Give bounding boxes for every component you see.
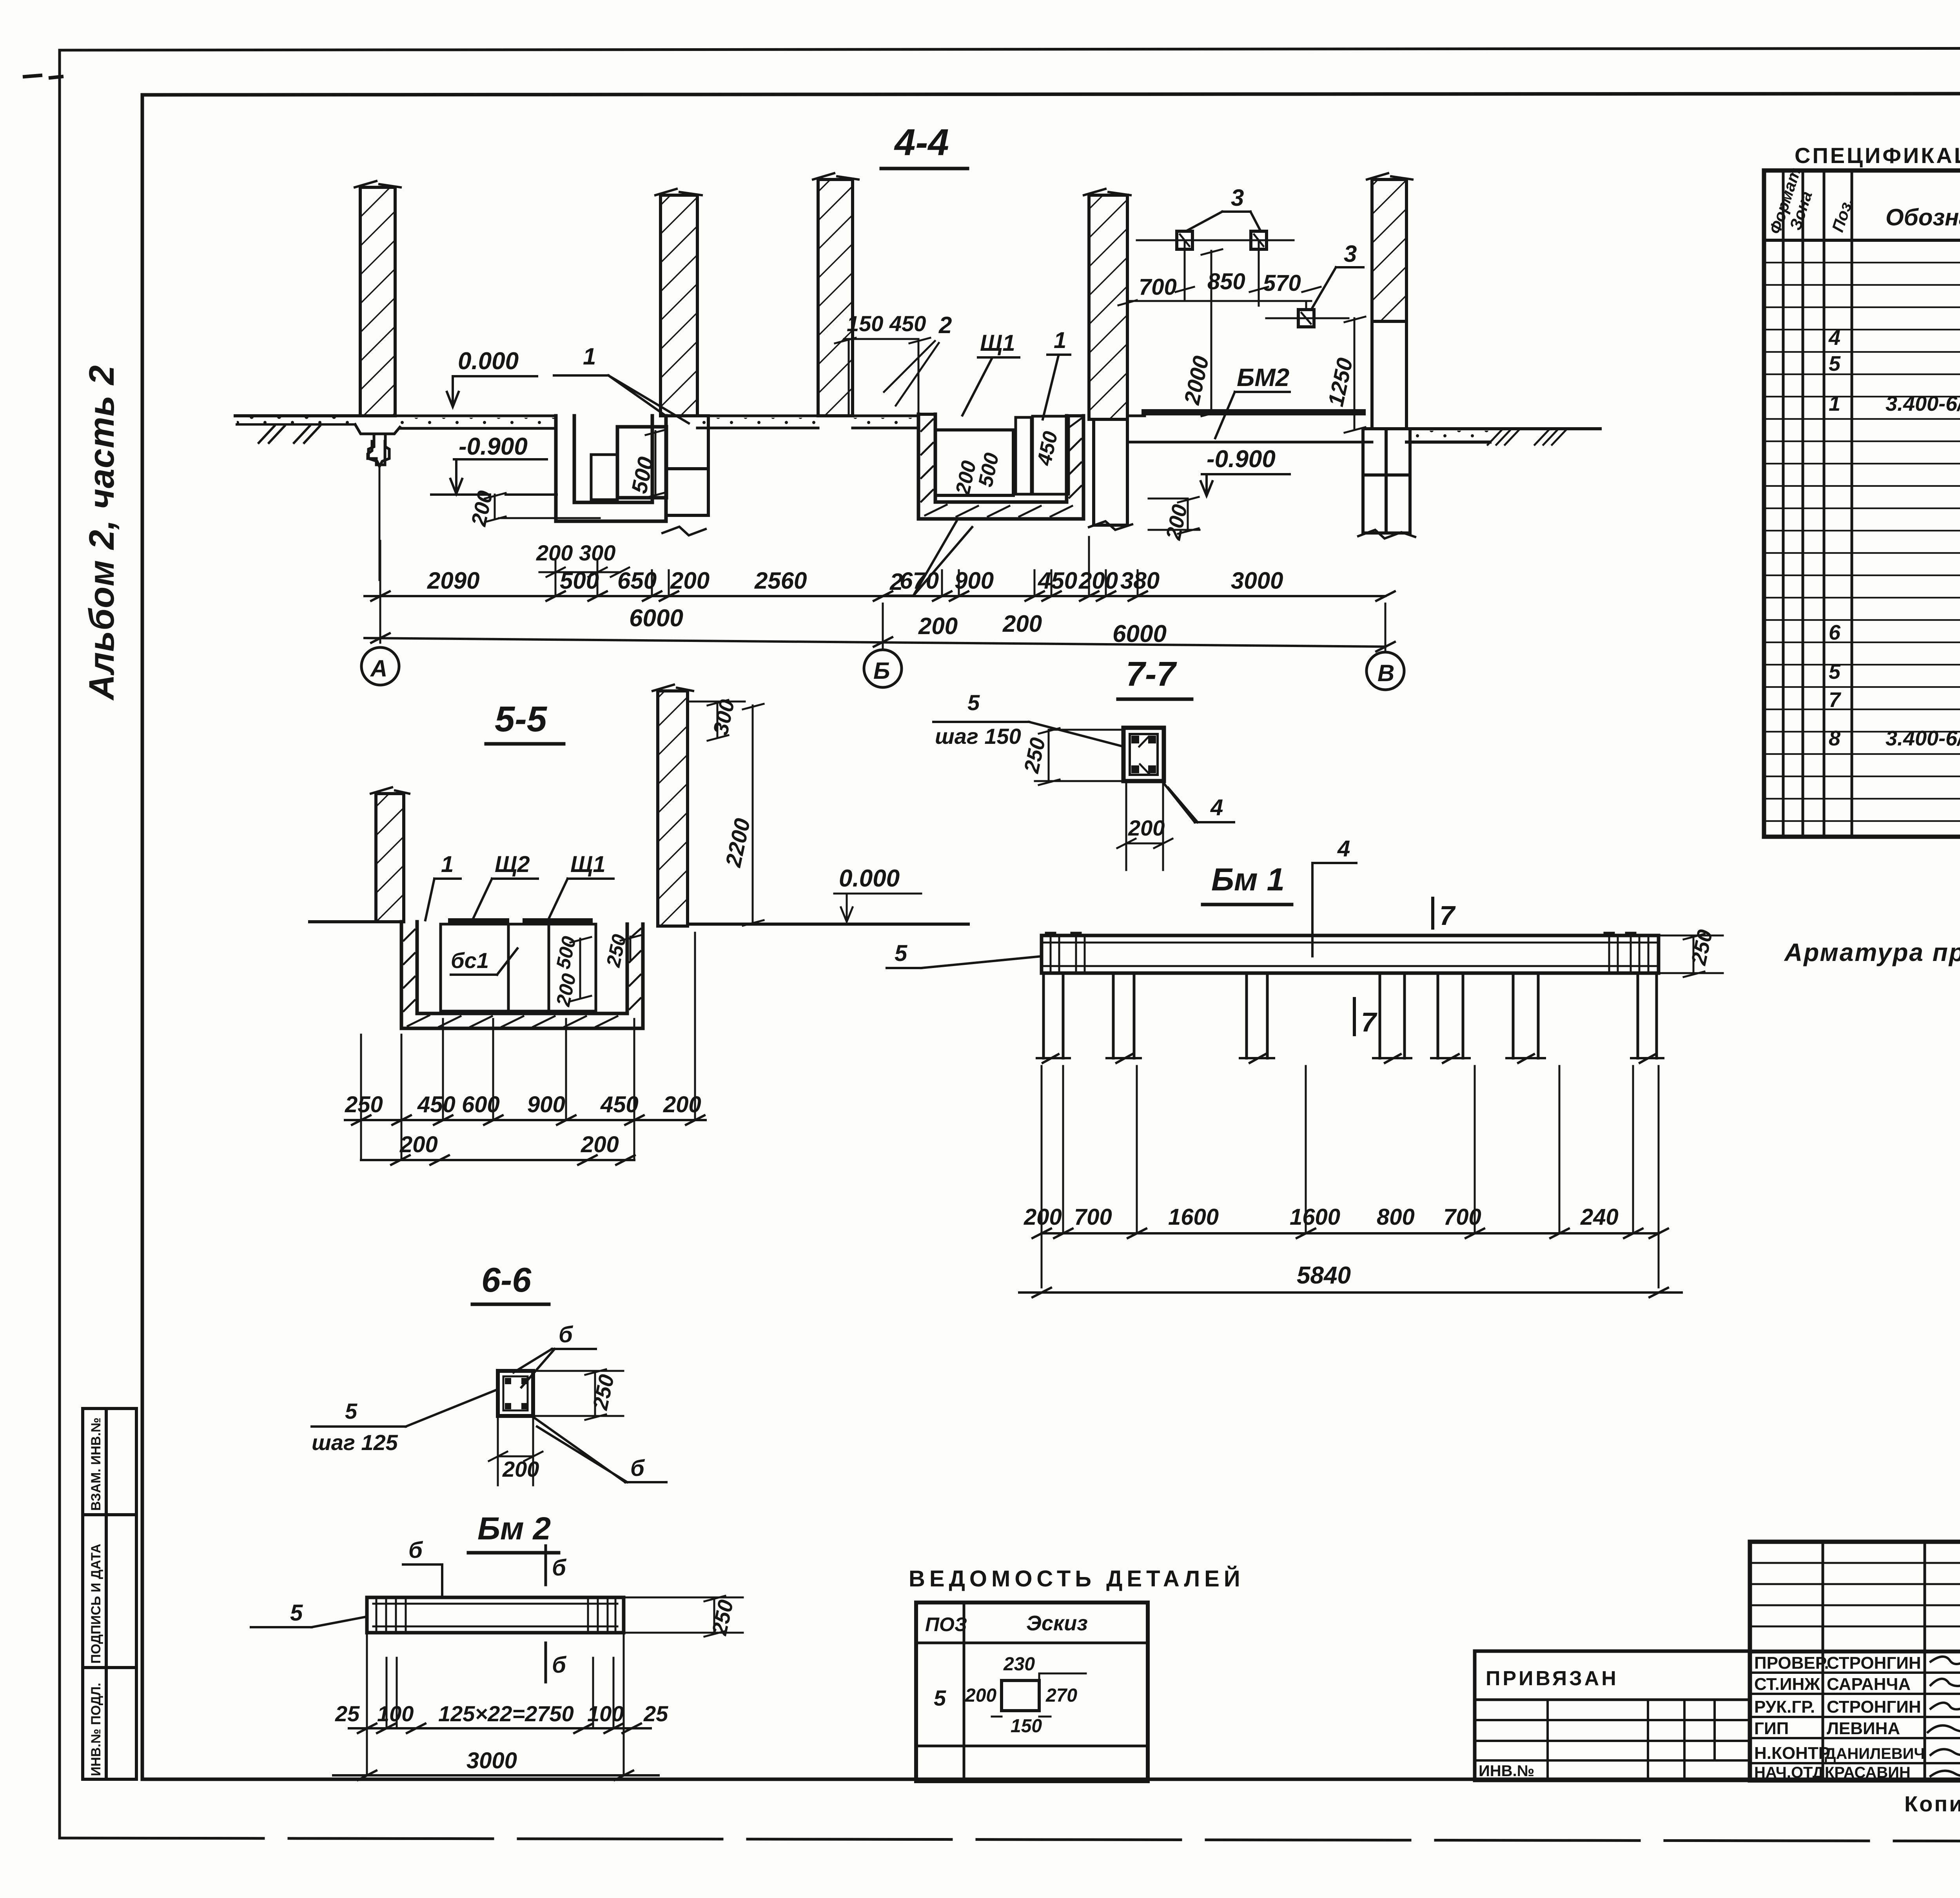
svg-text:ГИП: ГИП xyxy=(1754,1719,1789,1738)
svg-text:2560: 2560 xyxy=(754,567,807,594)
svg-text:5840: 5840 xyxy=(1297,1262,1351,1289)
privyazan block xyxy=(1475,1651,1750,1780)
svg-text:-0.900: -0.900 xyxy=(459,433,528,460)
vertical dims 2000 1250 xyxy=(1179,354,1357,409)
dim 200 below -0.900 xyxy=(467,489,497,529)
dip and anchor footing under wall A xyxy=(355,424,400,466)
dims 700 850 570 xyxy=(1139,269,1301,300)
table content xyxy=(1828,254,1960,839)
svg-text:Обозначение: Обозначение xyxy=(1886,204,1960,230)
svg-text:СТРОНГИН: СТРОНГИН xyxy=(1827,1697,1921,1717)
svg-text:Щ1: Щ1 xyxy=(570,852,606,877)
svg-text:Копировал: Коршунова: Копировал: Коршунова xyxy=(1904,1791,1960,1816)
svg-text:ИНВ.№ ПОДЛ.: ИНВ.№ ПОДЛ. xyxy=(89,1683,103,1776)
table outer xyxy=(1764,170,1960,837)
svg-text:3: 3 xyxy=(1344,241,1357,267)
label BM2 xyxy=(1237,363,1289,392)
title 7-7 xyxy=(1126,654,1177,693)
labels 150 450 2 above pit Sh1 xyxy=(847,311,952,338)
svg-text:270: 270 xyxy=(1045,1685,1077,1706)
label 4 above beam xyxy=(1337,836,1350,861)
svg-text:Щ1: Щ1 xyxy=(980,330,1015,356)
svg-text:В: В xyxy=(1377,660,1394,686)
svg-text:СТРОНГИН: СТРОНГИН xyxy=(1827,1653,1921,1673)
concrete band between pit1-wall2 .. wall3 .. pitSh1 xyxy=(697,416,918,428)
ground right of wall V xyxy=(1406,429,1600,442)
label Sh1 + 1 above middle pit xyxy=(980,328,1066,356)
svg-text:7: 7 xyxy=(1361,1007,1377,1037)
250 dim right of beam xyxy=(1687,928,1717,968)
svg-text:КРАСАВИН: КРАСАВИН xyxy=(1825,1764,1911,1781)
svg-text:ИНВ.№: ИНВ.№ xyxy=(1479,1762,1534,1780)
svg-text:200: 200 xyxy=(581,1132,619,1157)
svg-text:СТ.ИНЖ: СТ.ИНЖ xyxy=(1754,1675,1820,1694)
stirrups at ends xyxy=(1051,937,1648,972)
section 4-4 xyxy=(235,121,1600,690)
left columns xyxy=(1823,1542,1960,1780)
svg-text:0.000: 0.000 xyxy=(458,348,519,375)
svg-text:4-4: 4-4 xyxy=(894,121,949,163)
svg-text:6: 6 xyxy=(1829,621,1841,644)
wall2 pier below pit1 xyxy=(666,416,708,515)
note below table xyxy=(1784,938,1960,966)
svg-text:5: 5 xyxy=(934,1686,946,1710)
svg-text:200: 200 xyxy=(1128,816,1165,840)
svg-text:1600: 1600 xyxy=(1168,1204,1219,1230)
beam BM1 title xyxy=(1211,862,1285,897)
dim row A-B: 2090 500 650 200 2560 xyxy=(427,567,807,594)
svg-text:Бм 2: Бм 2 xyxy=(477,1511,551,1546)
svg-text:2090: 2090 xyxy=(427,567,479,594)
left wall hatched xyxy=(376,794,404,922)
svg-text:ПРОВЕР.: ПРОВЕР. xyxy=(1754,1653,1829,1673)
title block xyxy=(1475,1542,1960,1858)
svg-text:Н.КОНТР: Н.КОНТР xyxy=(1754,1744,1830,1763)
svg-text:900: 900 xyxy=(527,1092,565,1117)
svg-text:200: 200 xyxy=(399,1132,438,1157)
svg-text:700: 700 xyxy=(1074,1204,1112,1230)
svg-text:САРАНЧА: САРАНЧА xyxy=(1827,1675,1911,1694)
svg-text:8: 8 xyxy=(1829,727,1840,750)
250 dim left of square xyxy=(1020,736,1050,776)
title 4-4 xyxy=(894,121,949,163)
svg-text:450: 450 xyxy=(1038,567,1077,594)
svg-text:3.400-6/76: 3.400-6/76 xyxy=(1886,392,1960,415)
svg-text:4: 4 xyxy=(1828,326,1840,350)
b section marks center xyxy=(544,1546,547,1682)
bold plates on top xyxy=(451,918,590,924)
section 5-5 xyxy=(310,685,968,1165)
svg-text:ВЗАМ. ИНВ.№: ВЗАМ. ИНВ.№ xyxy=(89,1418,103,1511)
dim row 6000 6000 xyxy=(629,605,1167,647)
svg-text:150: 150 xyxy=(1011,1716,1042,1737)
svg-text:200: 200 xyxy=(1002,611,1042,637)
bottom dims 25 100 125x22=2750 100 25 xyxy=(335,1701,668,1726)
svg-text:230: 230 xyxy=(1003,1654,1035,1675)
texts xyxy=(1754,1561,1960,1781)
svg-text:7-7: 7-7 xyxy=(1126,654,1177,693)
basement between B and V : beam BM2 bold + floor xyxy=(1145,409,1363,415)
square section 7-7 xyxy=(1123,728,1164,781)
header row xyxy=(1764,239,1960,242)
svg-text:1600: 1600 xyxy=(1290,1204,1340,1230)
svg-text:НАЧ.ОТД: НАЧ.ОТД xyxy=(1754,1764,1824,1781)
svg-text:200: 200 xyxy=(670,567,710,594)
250 dim right xyxy=(708,1598,738,1638)
section 6-6 detail xyxy=(251,1260,743,1780)
svg-text:700: 700 xyxy=(1139,274,1177,300)
svg-text:ЛЕВИНА: ЛЕВИНА xyxy=(1827,1719,1900,1738)
wall A small footing xyxy=(368,441,385,465)
svg-text:1: 1 xyxy=(583,343,596,370)
svg-text:850: 850 xyxy=(1207,269,1245,294)
svg-text:шаг 125: шаг 125 xyxy=(312,1430,398,1455)
svg-text:200 300: 200 300 xyxy=(536,540,615,565)
label 5 left xyxy=(895,941,907,966)
level 0.000 left xyxy=(458,348,519,375)
svg-text:БМ2: БМ2 xyxy=(1237,363,1289,392)
label 5 shag 125 xyxy=(312,1399,398,1455)
thin row lines xyxy=(1764,263,1960,821)
signature rows xyxy=(1750,1673,1960,1763)
wall axis V hatched upper part xyxy=(1372,179,1406,321)
label 5 left xyxy=(290,1600,303,1626)
svg-text:25: 25 xyxy=(335,1701,360,1726)
small dims 200 300 xyxy=(536,540,615,565)
thick divider xyxy=(1750,1650,1960,1653)
vedomost detaley table xyxy=(909,1566,1245,1781)
label 2 lower middle xyxy=(889,569,903,595)
sketch in vedomost xyxy=(1002,1680,1039,1711)
svg-text:200: 200 xyxy=(1078,567,1118,594)
svg-text:ПОДПИСЬ И ДАТА: ПОДПИСЬ И ДАТА xyxy=(89,1544,103,1664)
svg-text:б: б xyxy=(552,1555,567,1581)
label b right xyxy=(630,1456,645,1481)
wall axis A hatched xyxy=(360,187,395,416)
svg-text:ДАНИЛЕВИЧ: ДАНИЛЕВИЧ xyxy=(1825,1745,1925,1762)
svg-text:А: А xyxy=(370,655,387,682)
svg-text:450: 450 xyxy=(600,1092,639,1117)
dim row B-V: 670 900 450 200 380 3000 + 200s xyxy=(900,567,1283,639)
3000 dim xyxy=(466,1748,517,1773)
wall V lower plain + footing block xyxy=(1372,321,1406,429)
svg-text:125×22=2750: 125×22=2750 xyxy=(438,1701,574,1726)
svg-text:б: б xyxy=(630,1456,645,1481)
svg-text:ПОЗ: ПОЗ xyxy=(925,1613,967,1635)
upper thin rows xyxy=(1750,1563,1960,1626)
section 7-7 detail + beam BM1 xyxy=(887,654,1723,1297)
250 dim right of square xyxy=(588,1372,619,1412)
svg-text:0.000: 0.000 xyxy=(839,865,900,892)
200 dim below square xyxy=(1128,816,1165,840)
legs below beam xyxy=(1044,973,1657,1058)
svg-text:200: 200 xyxy=(1024,1204,1062,1230)
svg-text:ВЕДОМОСТЬ ДЕТАЛЕЙ: ВЕДОМОСТЬ ДЕТАЛЕЙ xyxy=(909,1566,1245,1592)
level -0.900 right xyxy=(1207,446,1276,473)
svg-text:ПРИВЯЗАН: ПРИВЯЗАН xyxy=(1486,1667,1619,1690)
bottom dims row1: 250 450 600 900 450 200 xyxy=(345,1092,701,1117)
bottom captions xyxy=(1904,1791,1960,1852)
b mark above left xyxy=(408,1537,423,1563)
pit inner partitions xyxy=(441,924,508,1011)
axis circles A B V xyxy=(361,647,399,685)
left stamp column xyxy=(83,1409,136,1779)
pit Sh1 inner boxes xyxy=(935,430,1013,495)
svg-text:240: 240 xyxy=(1580,1204,1619,1230)
svg-text:Эскиз: Эскиз xyxy=(1026,1612,1088,1635)
svg-text:380: 380 xyxy=(1120,567,1160,594)
svg-text:бс1: бс1 xyxy=(451,948,489,973)
concrete prep band A..pit1 xyxy=(395,416,556,428)
middle pit Sh1 hatched walls xyxy=(918,414,1083,519)
svg-text:6000: 6000 xyxy=(629,605,683,632)
foundation pit 1 (between A and 2) xyxy=(556,416,666,521)
wall axis B hatched with plain pier below xyxy=(1089,195,1127,419)
svg-text:450: 450 xyxy=(417,1092,456,1117)
right side dims 300 2200 0.000 xyxy=(709,698,900,892)
inner small dims xyxy=(552,932,630,1008)
labels 1 Sh2 Sh1 xyxy=(441,852,606,877)
svg-text:б: б xyxy=(408,1537,423,1563)
column lines xyxy=(1783,170,1960,837)
bottom dims row2: 200 200 xyxy=(399,1132,619,1157)
right wall hatched tall xyxy=(658,691,688,926)
svg-text:2: 2 xyxy=(938,312,952,338)
pit U-shape xyxy=(401,922,643,1028)
beam BM1 body xyxy=(1042,935,1659,973)
svg-text:3000: 3000 xyxy=(1231,567,1283,594)
svg-text:1: 1 xyxy=(1054,328,1066,353)
stray scan dashes top-left xyxy=(23,75,64,78)
svg-text:200: 200 xyxy=(918,613,958,639)
svg-text:б: б xyxy=(552,1652,567,1678)
wall 2 hatched xyxy=(661,195,697,416)
svg-text:900: 900 xyxy=(955,567,994,594)
svg-text:5: 5 xyxy=(1829,660,1841,683)
svg-text:-0.900: -0.900 xyxy=(1207,446,1276,473)
level -0.900 left xyxy=(459,433,528,460)
specification table xyxy=(1764,143,1960,966)
svg-text:Арматура принята по ГОСТ 5781-: Арматура принята по ГОСТ 5781- 82. xyxy=(1784,938,1960,966)
label bc1 xyxy=(451,948,489,973)
svg-text:Альбом 2, часть 2: Альбом 2, часть 2 xyxy=(82,365,122,701)
svg-text:150 450: 150 450 xyxy=(847,311,926,336)
beam BM2 drawing xyxy=(477,1511,551,1546)
svg-text:5: 5 xyxy=(290,1600,303,1626)
wall 3 hatched xyxy=(818,179,853,416)
5840 dim xyxy=(1297,1262,1351,1289)
svg-text:шаг 150: шаг 150 xyxy=(935,724,1021,749)
floor line left + right of pit xyxy=(310,920,401,923)
200 dim below square xyxy=(502,1457,539,1481)
svg-text:570: 570 xyxy=(1263,270,1301,296)
ground line left of wall A with soil hatch xyxy=(235,414,360,417)
svg-text:РУК.ГР.: РУК.ГР. xyxy=(1754,1697,1815,1717)
beam body xyxy=(367,1597,624,1633)
svg-text:5: 5 xyxy=(1829,352,1841,375)
svg-text:Щ2: Щ2 xyxy=(495,852,530,877)
signatures squiggles xyxy=(1928,1657,1960,1776)
label 5 shag 150 xyxy=(935,690,1021,749)
svg-text:5: 5 xyxy=(895,941,907,966)
svg-text:100: 100 xyxy=(377,1701,414,1726)
svg-text:4: 4 xyxy=(1337,836,1350,861)
svg-text:7: 7 xyxy=(1829,688,1842,712)
svg-text:3.400-6/76: 3.400-6/76 xyxy=(1886,727,1960,750)
svg-text:5: 5 xyxy=(967,690,980,715)
svg-text:5: 5 xyxy=(345,1399,358,1423)
label b above xyxy=(559,1322,573,1347)
title 6-6 xyxy=(481,1260,532,1299)
title 5-5 xyxy=(495,699,548,739)
pos label 1 left xyxy=(583,343,596,370)
svg-text:670: 670 xyxy=(900,567,939,594)
svg-text:4: 4 xyxy=(1210,795,1223,820)
svg-text:25: 25 xyxy=(643,1701,668,1726)
svg-text:б: б xyxy=(559,1322,573,1347)
svg-text:800: 800 xyxy=(1377,1204,1415,1230)
square section 6-6 xyxy=(498,1371,533,1416)
svg-text:250: 250 xyxy=(345,1092,383,1117)
dims below beam xyxy=(1024,1204,1619,1230)
svg-text:7: 7 xyxy=(1439,900,1456,931)
embed plates 3 on B-V span xyxy=(1177,231,1192,249)
section mark 7 above / below xyxy=(1354,898,1433,1035)
svg-text:СПЕЦИФИКАЦИЯ К МОНОЛИТНЫМ БАЛК: СПЕЦИФИКАЦИЯ К МОНОЛИТНЫМ БАЛКАМ xyxy=(1795,143,1960,168)
svg-text:Бм 1: Бм 1 xyxy=(1211,862,1285,897)
svg-text:200: 200 xyxy=(965,1685,996,1706)
svg-text:3: 3 xyxy=(1231,185,1244,211)
label 4 right xyxy=(1210,795,1223,820)
svg-text:3000: 3000 xyxy=(466,1748,517,1773)
svg-text:1: 1 xyxy=(1829,392,1840,415)
pit1 500 dim xyxy=(626,455,658,495)
svg-text:6-6: 6-6 xyxy=(481,1260,532,1299)
svg-text:1: 1 xyxy=(441,852,454,877)
svg-text:Б: Б xyxy=(873,658,890,684)
svg-text:5-5: 5-5 xyxy=(495,699,548,739)
